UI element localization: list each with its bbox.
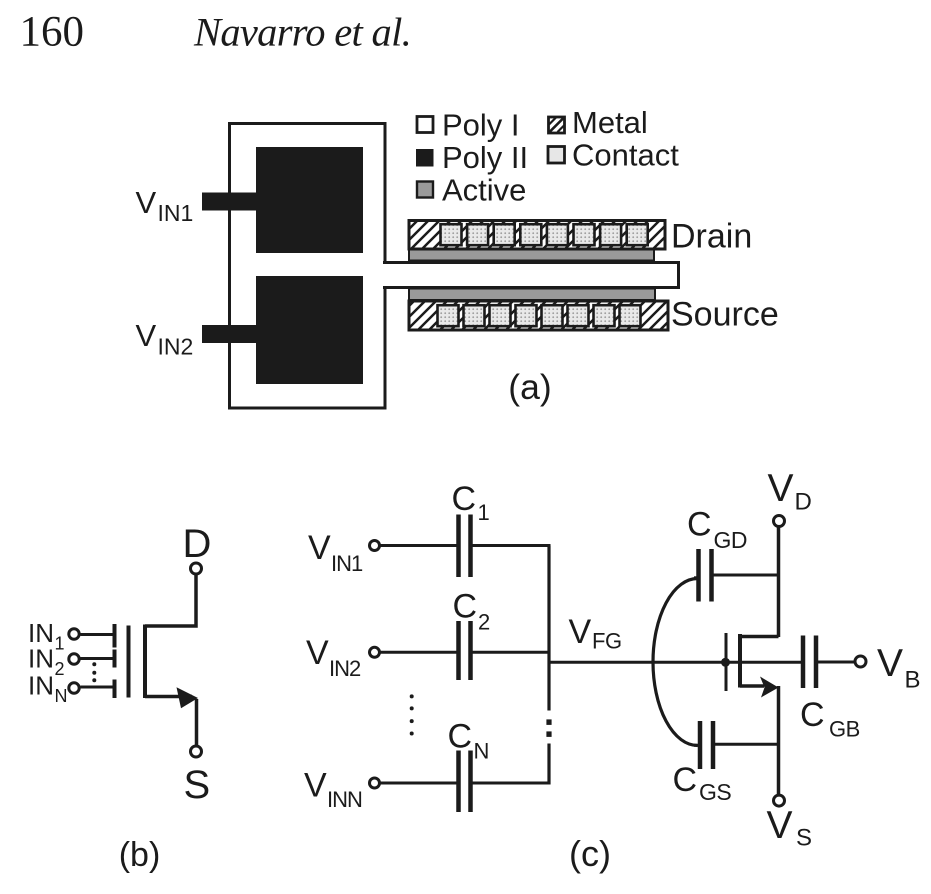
svg-text:1: 1 <box>478 500 490 525</box>
drain contact squares <box>441 224 648 245</box>
svg-text:V: V <box>768 467 794 510</box>
svg-text:V: V <box>304 767 327 805</box>
source arrow (b) <box>177 687 199 708</box>
V_IN1 label (c) <box>308 529 363 576</box>
svg-text:C: C <box>453 588 478 626</box>
input terminal circle IN1 <box>69 629 79 639</box>
svg-text:V: V <box>308 529 331 567</box>
mosfet channel bar <box>738 634 742 688</box>
active region upper <box>409 250 654 261</box>
wire row1 left <box>381 544 458 547</box>
label IN1 <box>28 618 65 654</box>
running head: Navarro et al. <box>193 10 411 55</box>
metal drain strip <box>409 221 665 250</box>
C_GD right wire <box>714 574 779 577</box>
C_GS left stub <box>694 744 700 747</box>
caption (a) <box>508 367 551 407</box>
C2 label <box>453 588 491 635</box>
V_IN2 label (c) <box>306 634 361 681</box>
svg-text:(a): (a) <box>508 367 551 407</box>
svg-text:160: 160 <box>20 9 85 56</box>
input coupling bar INN <box>113 680 117 699</box>
svg-text:FG: FG <box>592 629 622 654</box>
V_IN2 label <box>136 318 194 360</box>
svg-text:C: C <box>687 506 712 544</box>
C_GB right wire <box>818 661 856 664</box>
capacitor C1 <box>459 515 471 578</box>
svg-text:IN2: IN2 <box>158 334 194 360</box>
svg-text:V: V <box>877 642 903 685</box>
V_INN label (c) <box>304 767 362 813</box>
legend active swatch <box>417 182 433 198</box>
svg-text:(c): (c) <box>569 833 611 874</box>
page number 160 <box>20 9 85 56</box>
svg-text:C: C <box>673 761 698 799</box>
svg-text:V: V <box>767 804 793 847</box>
svg-text:IN: IN <box>28 644 54 674</box>
wire row2 left <box>381 651 458 654</box>
caption (c) <box>569 833 611 874</box>
wire row3 right <box>473 782 551 785</box>
drain terminal circle (b) <box>191 563 202 574</box>
mosfet source arrow <box>760 677 779 698</box>
input terminal circle V_IN2 <box>370 647 380 657</box>
source vertical wire <box>777 686 781 796</box>
input terminal circle INN <box>69 683 79 693</box>
C_GD left stub <box>694 576 699 579</box>
svg-text:V: V <box>136 318 157 353</box>
svg-text:IN2: IN2 <box>329 656 361 681</box>
svg-text:GS: GS <box>699 779 731 805</box>
legend label Metal <box>572 105 648 140</box>
svg-text:V: V <box>136 185 157 220</box>
active region lower <box>409 289 655 301</box>
svg-text:S: S <box>796 825 812 852</box>
input wire INN <box>81 686 113 689</box>
V_FG wire <box>549 661 802 664</box>
V_S label <box>767 804 813 852</box>
svg-text:2: 2 <box>478 610 490 635</box>
svg-text:1: 1 <box>55 634 65 654</box>
legend metal swatch <box>549 117 565 133</box>
wire row1 right <box>473 544 551 547</box>
svg-text:D: D <box>183 522 212 566</box>
input terminal circle V_INN <box>370 778 380 788</box>
legend label Active <box>442 173 526 208</box>
legend label Contact <box>572 138 679 173</box>
legend label Poly I <box>442 108 520 143</box>
legend contact swatch <box>548 147 565 164</box>
V_D label <box>768 467 812 516</box>
channel bar (b) <box>143 625 147 699</box>
drain wire (b) <box>145 575 196 627</box>
ellipsis dots (b) <box>92 662 96 682</box>
wire row2 right <box>473 651 551 654</box>
svg-text:C: C <box>452 480 477 518</box>
poly II input plate 2 <box>256 276 363 384</box>
svg-text:V: V <box>306 634 329 672</box>
input wire IN1 <box>81 633 113 636</box>
C_GS right wire <box>715 743 779 746</box>
svg-text:IN1: IN1 <box>158 200 194 226</box>
C_GD label <box>687 506 747 554</box>
CN label <box>448 718 490 764</box>
svg-text:Active: Active <box>442 173 526 208</box>
label Drain <box>671 218 752 256</box>
terminal label D <box>183 522 212 566</box>
svg-text:C: C <box>800 696 825 734</box>
junction dot gate/V_FG <box>721 658 730 667</box>
V_IN1 label <box>136 185 194 226</box>
floating-gate arc <box>653 579 698 746</box>
legend label Poly II <box>442 140 528 175</box>
svg-text:B: B <box>905 667 921 694</box>
svg-text:Contact: Contact <box>572 138 679 173</box>
label IN2 <box>28 644 65 680</box>
capacitor CN <box>459 751 471 813</box>
V_B label <box>877 642 921 694</box>
capacitor C_GB <box>803 636 816 689</box>
capacitor C_GS <box>700 721 713 769</box>
drain vertical wire <box>777 527 781 637</box>
legend poly II swatch <box>416 149 434 167</box>
svg-text:Poly I: Poly I <box>442 108 520 143</box>
svg-text:INN: INN <box>327 787 362 812</box>
svg-text:IN: IN <box>28 671 54 701</box>
input wire IN2 <box>81 657 113 660</box>
svg-text:S: S <box>184 763 211 807</box>
input coupling bar IN1 <box>113 624 117 648</box>
svg-text:(b): (b) <box>119 836 161 874</box>
floating-gate channel bar (poly I) <box>383 263 679 288</box>
legend poly I swatch <box>417 117 433 133</box>
capacitor C_GD <box>699 549 712 602</box>
input terminal circle IN2 <box>69 654 79 664</box>
V_FG label <box>569 613 622 654</box>
source contact squares <box>438 305 641 326</box>
svg-text:Source: Source <box>671 296 779 334</box>
poly I floating-gate outline <box>230 124 386 409</box>
caption (b) <box>119 836 161 874</box>
svg-text:V: V <box>569 613 592 651</box>
C_GB label <box>800 696 860 742</box>
capacitor C2 <box>459 621 471 680</box>
svg-text:Poly II: Poly II <box>442 140 528 175</box>
source terminal circle V_S <box>774 795 785 806</box>
svg-text:GD: GD <box>714 527 748 553</box>
bulk terminal circle V_B <box>855 656 866 667</box>
svg-text:Navarro et al.: Navarro et al. <box>193 10 411 55</box>
svg-text:N: N <box>55 686 68 706</box>
mosfet drain lead <box>740 635 779 639</box>
mosfet source lead <box>740 684 764 688</box>
V_IN1 lead (poly II) <box>202 193 258 211</box>
svg-text:Drain: Drain <box>671 218 752 256</box>
C_GS label <box>673 761 732 805</box>
svg-text:N: N <box>474 739 490 764</box>
floating gate bar (b) <box>127 626 131 698</box>
svg-text:GB: GB <box>829 717 860 742</box>
terminal label S <box>184 763 211 807</box>
source wire (b) <box>145 697 197 747</box>
input coupling bar IN2 <box>113 650 117 668</box>
V_IN2 lead (poly II) <box>202 325 258 343</box>
label Source <box>671 296 779 334</box>
svg-text:IN1: IN1 <box>331 551 363 576</box>
metal source strip <box>409 301 668 330</box>
svg-text:C: C <box>448 718 473 756</box>
drain terminal circle V_D <box>774 516 785 527</box>
svg-text:2: 2 <box>55 659 65 679</box>
svg-text:Metal: Metal <box>572 105 648 140</box>
ellipsis dots column (c) <box>410 694 414 735</box>
poly II input plate 1 <box>256 147 363 253</box>
C1 label <box>452 480 490 525</box>
mosfet gate line <box>725 633 728 691</box>
svg-text:D: D <box>795 489 812 516</box>
wire row3 left <box>381 782 458 785</box>
label INN <box>28 671 68 707</box>
source terminal circle (b) <box>191 746 202 757</box>
summing bus wire <box>546 546 551 785</box>
input terminal circle V_IN1 <box>370 541 380 551</box>
